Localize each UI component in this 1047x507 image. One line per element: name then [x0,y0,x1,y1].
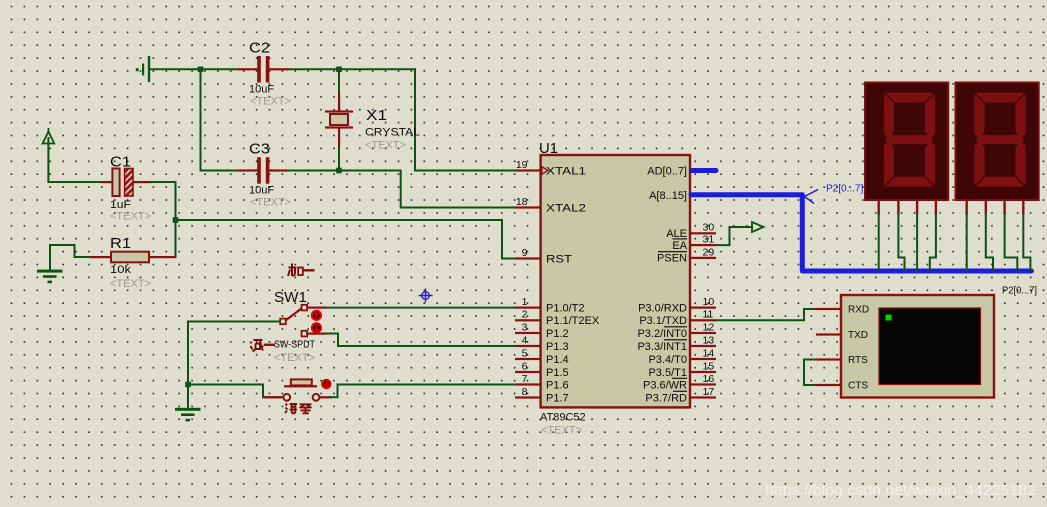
display pin lead [897,200,899,215]
display pin lead [916,200,918,215]
crystal X1 [325,93,353,146]
node button branch [185,382,191,388]
wire display pin to bus [966,215,968,272]
svg-text:P3.0/RXD: P3.0/RXD [638,302,687,314]
display pin lead [1022,200,1024,215]
capacitor C2 [238,56,289,83]
svg-text:XTAL2: XTAL2 [546,202,586,214]
svg-text:X1: X1 [366,108,387,124]
pin 2 P1.1/T2EX lead [515,319,541,321]
wire C1 to R1 [151,182,176,257]
svg-text:RXD: RXD [848,305,869,316]
switch SW1 (SPDT) [280,305,326,337]
wire SW1 pole [188,321,280,323]
virtual terminal [841,295,994,398]
svg-text:6: 6 [522,360,528,372]
svg-text:P1.1/T2EX: P1.1/T2EX [546,315,600,327]
wire SW1 to P1.3 [327,334,516,347]
svg-text:P3.5/T1: P3.5/T1 [648,367,687,379]
pin 10 P3.0/RXD lead [690,307,716,309]
pin 1 P1.0/T2 lead [515,307,541,309]
svg-text:AD[0..7]: AD[0..7] [647,165,687,177]
pin 12 P3.2/INT0 lead [690,332,716,334]
button actuator [321,379,331,389]
wire C3 to XTAL2 [288,171,515,208]
wire [288,68,415,70]
svg-text:C1: C1 [110,155,131,171]
origin marker [419,289,433,303]
svg-text:P1.2: P1.2 [546,328,569,340]
svg-text:17: 17 [703,386,715,398]
terminal pin RTS lead [816,358,841,360]
wire SW1 to P1.0 [327,307,516,309]
wire power to C1 [48,138,101,182]
svg-text:P2[0...7]: P2[0...7] [1002,286,1037,297]
svg-text:1: 1 [522,296,528,308]
svg-text:C3: C3 [249,142,270,158]
svg-text:10uF: 10uF [249,185,274,197]
pin 31 EA lead [690,244,716,246]
pin 17 P3.7/RD lead [690,396,716,398]
svg-text:https://blog.csdn.net/weixin_4: https://blog.csdn.net/weixin_44225182 [765,483,1036,499]
svg-text:15: 15 [703,360,715,372]
ground (under R1) [37,270,63,273]
svg-text:11: 11 [703,309,714,321]
pin 16 P3.6/WR lead [690,383,716,385]
svg-text:U1: U1 [539,141,558,157]
wire to XTAL1 [415,69,515,170]
svg-text:12: 12 [703,321,715,333]
wire R1 to ground [50,245,89,270]
wire display pin to bus [878,215,880,272]
svg-text:10: 10 [703,296,715,308]
wire EA to power [716,227,752,245]
svg-text:SW-SPDT: SW-SPDT [274,339,315,351]
node (gnd to C3 branch) [198,67,204,73]
XTAL1 clock pin marker [542,167,548,175]
svg-text:P3.2/INT0: P3.2/INT0 [637,328,687,340]
wire rail to ground [187,322,189,409]
wire crystal top [338,69,340,94]
wire to button [188,385,283,398]
svg-text:P1.6: P1.6 [546,379,569,391]
svg-text:31: 31 [703,234,715,246]
svg-text:13: 13 [703,334,715,346]
display pin lead [878,200,880,215]
resistor R1 [89,252,176,263]
svg-text:18: 18 [516,196,528,208]
svg-text:10uF: 10uF [249,84,274,96]
wire button to P1.6 [330,385,515,398]
pin 8 P1.7 lead [515,396,541,398]
svg-text:CTS: CTS [848,381,868,392]
display pin lead [966,200,968,215]
svg-text:XTAL1: XTAL1 [546,165,586,177]
svg-text:<TEXT>: <TEXT> [365,140,406,152]
bus P2[0..7] [691,195,1032,271]
terminal pin RXD lead [816,308,841,310]
pin 19 XTAL1 lead [515,169,541,171]
svg-text:TXD: TXD [848,330,868,341]
pin 3 P1.2 lead [515,332,541,334]
svg-text:P1.4: P1.4 [546,354,569,366]
pin 6 P1.5 lead [515,371,541,373]
power terminal (right arrow) [752,222,764,232]
node (crystal bottom) [336,168,342,174]
display pin lead [1003,200,1005,215]
wire display pin to bus [1005,215,1018,272]
svg-text:9: 9 [522,247,528,259]
terminal pin CTS lead [816,384,841,386]
power terminal (up arrow) [47,128,49,134]
pin 7 P1.6 lead [515,383,541,385]
display pin lead [985,200,987,215]
svg-text:<TEXT>: <TEXT> [110,278,151,290]
svg-text:RST: RST [546,253,572,265]
ground (rotated, xtal net) [148,56,150,82]
svg-text:1uF: 1uF [110,199,131,211]
SW1 actuator (down) [311,322,322,333]
pin 9 RST lead [515,257,541,259]
pin 14 P3.4/T0 lead [690,358,716,360]
svg-text:CRYSTAL: CRYSTAL [365,127,420,139]
svg-text:<TEXT>: <TEXT> [250,197,291,209]
ground (under rail) [175,408,201,411]
terminal cursor [886,315,892,321]
svg-text:AT89C52: AT89C52 [540,412,586,424]
label 减一 (decrement) [251,340,276,352]
svg-text:8: 8 [522,386,528,398]
wire to RST [176,220,516,259]
svg-text:30: 30 [703,222,715,234]
wire display pin to bus [898,215,904,272]
svg-text:<TEXT>: <TEXT> [274,352,315,364]
pin 5 P1.4 lead [515,358,541,360]
svg-text:<TEXT>: <TEXT> [541,425,582,437]
svg-text:14: 14 [703,347,715,359]
svg-text:EA: EA [672,240,687,252]
svg-text:P3.7/RD: P3.7/RD [645,392,687,404]
label 清零 (clear) [285,404,312,414]
svg-text:P1.7: P1.7 [546,392,569,404]
svg-text:P1.3: P1.3 [546,341,569,353]
7-segment display D1 [865,83,948,201]
svg-text:3: 3 [522,321,528,333]
svg-text:19: 19 [516,159,528,171]
terminal pin TXD lead [816,333,841,335]
push button (clear) [263,379,332,400]
svg-text:4: 4 [522,334,528,346]
pin 30 ALE lead [690,232,716,234]
svg-text:10k: 10k [110,264,132,276]
wire display pin to bus [916,215,918,272]
svg-text:P3.3/INT1: P3.3/INT1 [637,341,687,353]
wire display pin to bus [1023,215,1030,272]
capacitor C1 (polarized) [101,169,151,197]
svg-text:P1.0/T2: P1.0/T2 [546,302,585,314]
svg-text:<TEXT>: <TEXT> [250,96,291,108]
pin 18 XTAL2 lead [515,206,541,208]
svg-text:29: 29 [703,246,715,258]
svg-text:A[8..15]: A[8..15] [649,190,687,202]
node RST branch [173,217,179,223]
bus stub AD[0..7] [692,168,716,173]
SW1 actuator (up) [311,310,322,321]
svg-text:P3.4/T0: P3.4/T0 [648,354,687,366]
svg-text:P3.6/WR: P3.6/WR [643,379,687,391]
svg-text:<TEXT>: <TEXT> [110,211,151,223]
svg-text:P3.1/TXD: P3.1/TXD [639,315,687,327]
svg-text:7: 7 [522,373,528,385]
svg-text:RTS: RTS [848,355,868,366]
wire crystal bottom [338,144,340,171]
wire [200,69,202,170]
svg-text:PSEN: PSEN [657,253,687,265]
svg-text:SW1: SW1 [274,290,307,306]
pin 15 P3.5/T1 lead [690,371,716,373]
pin 13 P3.3/INT1 lead [690,345,716,347]
node (crystal top) [336,67,342,73]
svg-text:C2: C2 [249,41,270,57]
op: IC U1 AT89C52 body [541,155,690,407]
svg-text:ALE: ALE [666,228,687,240]
wire terminal RTS-CTS loop [804,360,816,386]
capacitor C3 [238,157,289,184]
svg-text:5: 5 [522,347,528,359]
svg-text:R1: R1 [110,236,131,252]
wire display pin to bus [986,215,993,272]
pin 4 P1.3 lead [515,345,541,347]
svg-text:P1.5: P1.5 [546,367,569,379]
pin 11 P3.1/TXD lead [690,319,716,321]
wire TXD to terminal RXD [716,309,816,320]
svg-text:16: 16 [703,373,715,385]
bus entry arrow [805,190,819,204]
svg-text:2: 2 [522,309,528,321]
label 加一 (increment) [288,264,315,277]
wire [150,68,238,70]
svg-text:P2[0...7]: P2[0...7] [826,184,863,195]
7-segment display D2 [956,83,1039,201]
display pin lead [935,200,937,215]
wire display pin to bus [930,215,936,272]
wire [201,170,239,172]
pin 29 PSEN lead [690,257,716,259]
